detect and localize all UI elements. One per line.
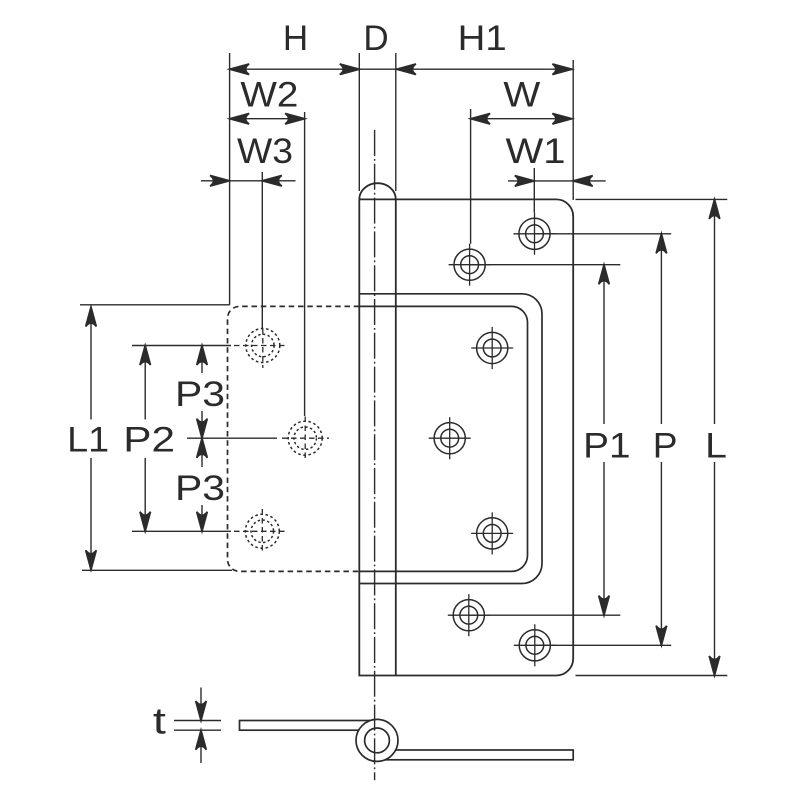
flap hole B outer dotted circle bbox=[288, 421, 322, 455]
W1 right outside arrow bbox=[573, 176, 593, 187]
plate hole 2 bbox=[449, 244, 491, 286]
hole7 extension line to P bbox=[535, 644, 671, 646]
H left arrow bbox=[230, 64, 250, 75]
P bottom arrow bbox=[656, 626, 667, 646]
P2 bottom arrow bbox=[140, 512, 151, 532]
P3 lower top arrow bbox=[197, 438, 208, 458]
P3 upper top arrow bbox=[197, 346, 208, 366]
flap hole C outer dotted circle bbox=[245, 514, 279, 548]
svg-text:H1: H1 bbox=[458, 19, 507, 58]
W1 dimension line bbox=[508, 180, 606, 182]
P3 lower dimension line bbox=[201, 438, 203, 467]
P top arrow bbox=[656, 234, 667, 254]
P2 bottom extension line bbox=[132, 530, 231, 532]
t lower extension line bbox=[174, 729, 221, 731]
t upper arrow leader bbox=[200, 688, 202, 721]
W2 dimension line bbox=[230, 118, 305, 120]
H1 right arrow bbox=[552, 64, 572, 75]
side view left leaf bar bbox=[240, 721, 378, 731]
flap hole B vertical crosshair bbox=[304, 417, 306, 461]
plate right edge extension line bbox=[572, 60, 574, 200]
plate hole 6 bbox=[448, 594, 490, 636]
svg-text:P3: P3 bbox=[175, 469, 225, 508]
P1 dimension line bbox=[603, 265, 605, 424]
plate hole 5 bbox=[471, 512, 513, 554]
t upper arrow bbox=[196, 701, 207, 721]
P dimension line bbox=[660, 234, 662, 424]
plate top extension line to L bbox=[576, 198, 728, 200]
H1 left arrow bbox=[396, 64, 416, 75]
svg-text:P: P bbox=[653, 427, 678, 466]
L dimension line bbox=[714, 199, 716, 424]
knuckle right edge bbox=[395, 199, 397, 675]
W3 right outside arrow bbox=[262, 176, 282, 187]
L bottom arrow bbox=[709, 656, 720, 676]
W2 right arrow bbox=[285, 113, 305, 124]
P1 bottom arrow bbox=[599, 596, 610, 616]
flap hole C right crosshair bbox=[234, 530, 286, 532]
flap hole A outer dotted circle bbox=[246, 329, 280, 363]
left flap dashed outline bbox=[228, 306, 360, 571]
svg-text:D: D bbox=[363, 19, 388, 58]
W left extension line bbox=[470, 109, 472, 244]
L1 bottom extension line bbox=[82, 569, 232, 571]
svg-text:P3: P3 bbox=[175, 375, 225, 414]
L1 dimension line bbox=[90, 307, 92, 420]
plate bottom extension line to L bbox=[576, 675, 728, 677]
svg-text:H: H bbox=[283, 19, 308, 58]
W right arrow bbox=[552, 113, 572, 124]
L top arrow bbox=[709, 199, 720, 219]
hole2 extension line to P1 bbox=[470, 264, 621, 266]
flap hole C vertical crosshair bbox=[261, 509, 263, 554]
flap hole C inner dotted circle bbox=[251, 520, 274, 543]
plate hole 3 bbox=[471, 327, 513, 369]
L1 bottom arrow bbox=[86, 550, 97, 570]
side view knuckle outer circle bbox=[356, 719, 398, 761]
right leaf plate outline bbox=[359, 199, 573, 675]
flap hole B inner dotted circle bbox=[294, 427, 317, 450]
L1 top extension line bbox=[80, 304, 230, 306]
P1 top arrow bbox=[599, 265, 610, 285]
flap hole A inner dotted circle bbox=[252, 334, 275, 357]
W3 dimension line bbox=[201, 180, 296, 182]
P3 middle extension line bbox=[187, 437, 277, 439]
flap hole A vertical crosshair bbox=[262, 329, 264, 368]
recess outer outline bbox=[359, 294, 542, 584]
side view right leaf bar bbox=[376, 750, 573, 760]
hinge pin centerline bbox=[374, 130, 376, 780]
W dimension line bbox=[471, 118, 572, 120]
flap hole A right crosshair bbox=[234, 345, 286, 347]
plate hole 7 bbox=[514, 624, 556, 666]
top dimension chain line H D H1 bbox=[230, 68, 572, 70]
P3 upper dimension line bbox=[201, 346, 203, 374]
P3 upper bottom arrow bbox=[197, 419, 208, 439]
P3 lower bottom arrow bbox=[197, 512, 208, 532]
W2 left arrow bbox=[230, 113, 250, 124]
left extension line x=229.6 bbox=[229, 53, 231, 305]
W3 right extension line bbox=[261, 172, 263, 328]
plate hole 1 bbox=[514, 213, 556, 255]
P2 top extension line bbox=[132, 345, 231, 347]
W2 right extension line bbox=[304, 112, 306, 416]
W1 left extension line bbox=[533, 168, 535, 213]
svg-text:W1: W1 bbox=[506, 132, 566, 171]
folded leaf edge inside plate bbox=[359, 306, 527, 571]
P2 top arrow bbox=[140, 346, 151, 366]
W3 left outside arrow bbox=[210, 176, 230, 187]
svg-text:P2: P2 bbox=[123, 420, 175, 459]
svg-text:P1: P1 bbox=[583, 427, 630, 466]
svg-text:L: L bbox=[705, 427, 727, 466]
pin left extension line bbox=[358, 53, 360, 191]
side view knuckle inner circle bbox=[365, 728, 390, 753]
svg-text:W3: W3 bbox=[237, 132, 293, 171]
t lower arrow bbox=[196, 730, 207, 750]
W left arrow bbox=[471, 113, 491, 124]
svg-text:W2: W2 bbox=[240, 75, 298, 114]
svg-text:t: t bbox=[153, 701, 167, 742]
flap hole B horizontal crosshair bbox=[282, 437, 329, 439]
t upper extension line bbox=[174, 720, 221, 722]
svg-text:L1: L1 bbox=[67, 420, 109, 459]
pin right extension line bbox=[395, 53, 397, 191]
H right arrow bbox=[340, 64, 360, 75]
svg-text:W: W bbox=[503, 75, 540, 114]
knuckle top arc bbox=[359, 183, 396, 199]
P2 dimension line bbox=[144, 346, 146, 420]
plate hole 4 bbox=[429, 417, 471, 459]
L1 top arrow bbox=[86, 307, 97, 327]
hole6 extension line to P1 bbox=[469, 614, 621, 616]
W1 left outside arrow bbox=[515, 176, 535, 187]
t lower arrow leader bbox=[200, 730, 202, 763]
hole1 extension line to P bbox=[535, 233, 672, 235]
